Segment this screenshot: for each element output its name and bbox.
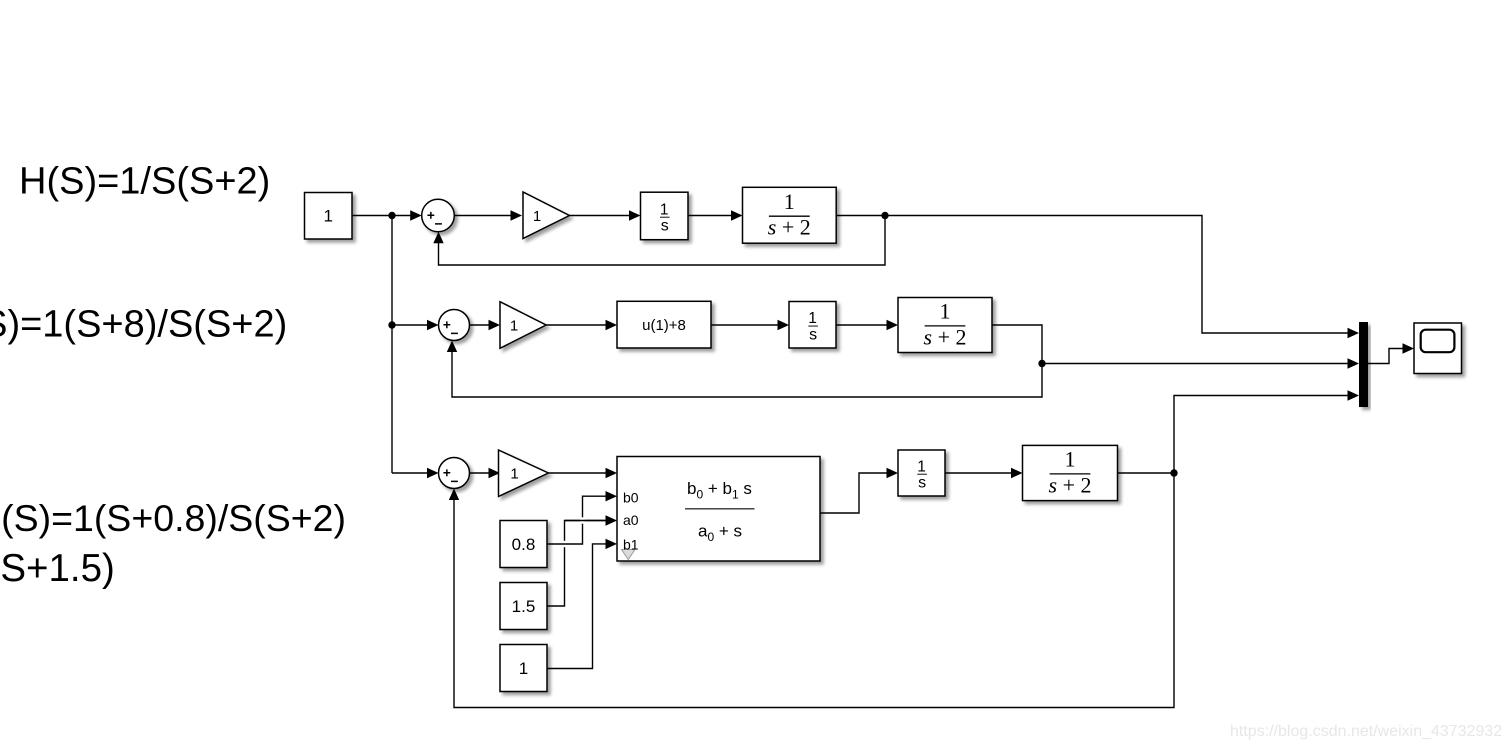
wire Fcn to integrator I2 <box>711 320 789 330</box>
wire node to mux input 3 <box>1174 390 1359 473</box>
wire gain G3 to fraction block <box>548 468 617 478</box>
mux <box>1359 322 1368 407</box>
wire sum S3 to gain G3 <box>470 468 501 478</box>
svg-text:1: 1 <box>917 458 926 475</box>
wire mux to scope <box>1368 343 1414 363</box>
gain G1 <box>523 192 569 239</box>
svg-text:1: 1 <box>940 299 951 324</box>
wire T1 output to mux input 1 <box>836 216 1359 339</box>
wire integrator I1 to transfer fn T1 <box>688 210 743 220</box>
wire constant 1 to sum S1 <box>352 210 422 220</box>
svg-text:s: s <box>661 218 669 235</box>
svg-text:0.8: 0.8 <box>512 535 536 554</box>
Fcn block u(1)+8 <box>617 301 711 348</box>
node trunk to sum S2 <box>388 321 395 328</box>
svg-text:u(1)+8: u(1)+8 <box>642 317 686 334</box>
svg-text:(S+1.5): (S+1.5) <box>0 547 115 590</box>
constant block 1.5 <box>500 583 547 630</box>
wire fraction block to integrator I3 <box>820 468 898 513</box>
integrator I3 (1/s) <box>898 450 945 496</box>
wire sum S2 to gain G2 <box>470 320 501 330</box>
svg-text:s + 2: s + 2 <box>924 324 967 349</box>
wire trunk vertical <box>391 216 393 474</box>
svg-text:1: 1 <box>1065 447 1076 472</box>
integrator I2 (1/s) <box>789 302 836 349</box>
wire hop gap at b0-line crossing <box>580 517 584 523</box>
gain G3 <box>499 450 549 497</box>
wire sum S1 to gain G1 <box>454 210 522 220</box>
wire a0 horizontal redraw over hop <box>565 520 606 522</box>
sum S2 <box>439 310 470 341</box>
wire feedback loop 3 <box>449 473 1174 708</box>
transfer fn T3 (1/(s+2)) <box>1023 445 1118 500</box>
svg-text:H(S)=1(S+0.8)/S(S+2): H(S)=1(S+0.8)/S(S+2) <box>0 497 346 539</box>
transfer fn T2 (1/(s+2)) <box>898 298 992 353</box>
svg-text:s + 2: s + 2 <box>768 215 811 240</box>
svg-text:https://blog.csdn.net/weixin_4: https://blog.csdn.net/weixin_43732932 <box>1230 723 1502 740</box>
svg-text:a0: a0 <box>623 512 639 528</box>
svg-text:1: 1 <box>323 207 332 226</box>
svg-text:b1: b1 <box>623 537 639 553</box>
wire gain G1 to integrator I1 <box>570 210 641 220</box>
svg-text:H(S)=1/S(S+2): H(S)=1/S(S+2) <box>19 161 270 203</box>
svg-text:H(S)=1(S+8)/S(S+2): H(S)=1(S+8)/S(S+2) <box>0 304 287 346</box>
wire trunk to sum S3 <box>392 468 439 478</box>
wire T2 output to mux input 2 <box>992 325 1359 369</box>
wire constant 1.5 to port a0 <box>547 515 617 606</box>
transfer fn T1 (1/(s+2)) <box>743 187 837 243</box>
node T1 output junction <box>881 212 888 219</box>
svg-text:s: s <box>809 326 817 343</box>
constant block 1 (source) <box>305 193 353 240</box>
svg-text:1: 1 <box>533 208 541 225</box>
gain G2 <box>500 302 546 349</box>
node T2 output junction <box>1038 360 1045 367</box>
svg-text:1: 1 <box>510 466 518 483</box>
wire gain G2 to Fcn block <box>546 320 617 330</box>
wire integrator I2 to transfer fn T2 <box>836 320 898 330</box>
wire trunk to sum S2 <box>392 320 439 330</box>
svg-text:s + 2: s + 2 <box>1049 472 1092 497</box>
wire constant 1 to port b1 <box>547 539 617 669</box>
svg-text:b0: b0 <box>623 489 639 505</box>
svg-text:1: 1 <box>519 659 528 678</box>
sum S1 <box>422 199 455 232</box>
wire feedback loop 1 <box>433 216 885 266</box>
constant block 1 (bottom) <box>500 645 547 692</box>
svg-text:1: 1 <box>510 318 518 335</box>
constant block 0.8 <box>500 521 547 568</box>
svg-text:1: 1 <box>808 310 817 327</box>
wire constant 0.8 to port b0 <box>547 491 617 544</box>
svg-text:1: 1 <box>660 201 669 218</box>
node T3 output junction <box>1170 469 1177 476</box>
svg-text:s: s <box>918 475 926 492</box>
sum S3 <box>439 458 470 489</box>
wire integrator I3 to transfer fn T3 <box>945 468 1023 478</box>
wire T3 output to node <box>1118 472 1175 474</box>
fraction block (b0+b1s)/(a0+s) <box>617 457 820 562</box>
scope <box>1414 323 1462 374</box>
wire feedback loop 2 <box>447 341 1042 398</box>
node trunk split <box>388 212 395 219</box>
integrator I1 (1/s) <box>641 192 689 240</box>
svg-text:1: 1 <box>784 189 795 214</box>
wire hop gap at a0-line crossing <box>562 541 566 547</box>
svg-text:1.5: 1.5 <box>512 597 536 616</box>
